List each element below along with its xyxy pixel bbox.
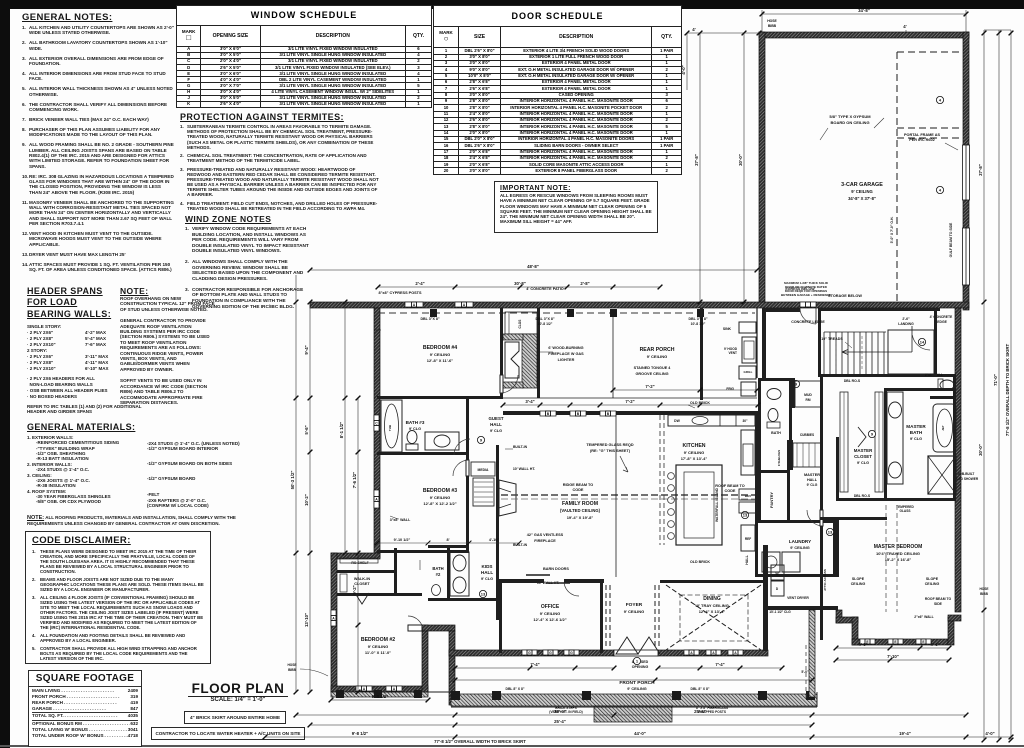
svg-text:9' CEILING: 9' CEILING (851, 189, 872, 194)
laundry hall wall (755, 523, 758, 577)
svg-text:CODE: CODE (725, 489, 736, 493)
garage left wall (759, 32, 765, 304)
svg-text:VENT DRYER: VENT DRYER (787, 596, 809, 600)
svg-text:8"x8" CYPRESS POSTS: 8"x8" CYPRESS POSTS (378, 291, 422, 295)
master top corridor wall (820, 517, 887, 520)
svg-text:3'-4": 3'-4" (525, 399, 534, 404)
svg-text:7'-4": 7'-4" (715, 662, 724, 667)
header spans heading (27, 286, 147, 320)
bath2 walls (428, 545, 469, 548)
outdoor kitchen wall (700, 308, 703, 400)
svg-text:37'-8": 37'-8" (978, 164, 983, 176)
bedroom4 door (500, 375, 503, 393)
svg-text:GLASS: GLASS (900, 509, 911, 513)
svg-text:GRILL: GRILL (744, 370, 753, 374)
dining tray X (666, 585, 761, 650)
svg-text:14: 14 (920, 340, 925, 345)
svg-text:77'-8 1/2" OVERALL WIDTH TO BR: 77'-8 1/2" OVERALL WIDTH TO BRICK SKIRT (434, 739, 526, 744)
svg-text:MEDIA: MEDIA (478, 468, 489, 472)
svg-text:CONCRETE LEDGE: CONCRETE LEDGE (791, 320, 825, 324)
contractor note (151, 727, 305, 740)
svg-text:2'-8": 2'-8" (580, 281, 589, 286)
sheet border top (0, 0, 1024, 9)
powder bath walls (758, 378, 761, 440)
fireplace hatched chase (522, 334, 537, 388)
svg-text:44'-0": 44'-0" (634, 731, 646, 736)
porch brick steps hatch (594, 706, 672, 722)
svg-text:9' CEILING: 9' CEILING (540, 611, 561, 616)
svg-text:9' CEILING: 9' CEILING (368, 644, 389, 649)
house rear wall (310, 302, 969, 308)
svg-text:11'-0" X 11'-0": 11'-0" X 11'-0" (365, 650, 391, 655)
vanity sinks (887, 392, 903, 484)
svg-text:BATH: BATH (432, 566, 443, 571)
square footage box (28, 670, 142, 747)
svg-text:7'-4": 7'-4" (530, 662, 539, 667)
svg-text:4'-0": 4'-0" (985, 731, 994, 736)
front porch slab hatch (451, 694, 817, 706)
svg-text:7'-2": 7'-2" (625, 399, 634, 404)
svg-text:LANDING: LANDING (898, 322, 914, 326)
svg-text:9'-8 1/2": 9'-8 1/2" (372, 694, 388, 699)
svg-text:7'-10": 7'-10" (887, 654, 899, 659)
important note box (494, 181, 658, 233)
door schedule table (433, 5, 682, 175)
svg-text:8'-1 1/2": 8'-1 1/2" (339, 422, 344, 438)
svg-text:LAUNDRY: LAUNDRY (789, 539, 811, 544)
shower (928, 456, 956, 494)
svg-text:BATH: BATH (771, 431, 781, 435)
rear porch posts (430, 309, 437, 317)
svg-text:DBL 3"X 8": DBL 3"X 8" (535, 317, 554, 321)
master bath bottom wall (884, 498, 956, 501)
svg-text:FIREPLACE W GAS: FIREPLACE W GAS (548, 352, 584, 356)
svg-text:77'-8 1/2" OVERALL DEPTH TO BR: 77'-8 1/2" OVERALL DEPTH TO BRICK SKIRT (1005, 344, 1010, 437)
master bottom step east (948, 617, 954, 645)
svg-text:DW: DW (674, 419, 680, 423)
dimension labels (290, 8, 1010, 744)
garage door openings in right wall (963, 145, 970, 200)
svg-text:BEDROOM #2: BEDROOM #2 (361, 637, 395, 643)
svg-text:9' CEILING: 9' CEILING (627, 687, 647, 691)
svg-text:9 SHELVES: 9 SHELVES (777, 450, 781, 466)
svg-text:15'-2" X 16'-8": 15'-2" X 16'-8" (885, 557, 912, 562)
laundry (758, 520, 836, 523)
stairwell west wall (818, 308, 821, 377)
office walls (499, 583, 502, 653)
dimension ticks (263, 12, 1014, 743)
kitchen left dashed cased opening (659, 415, 661, 545)
termites text block (180, 112, 380, 214)
svg-text:TUB: TUB (388, 424, 392, 431)
garage door dashed tracks (897, 52, 961, 302)
svg-text:EGRESS BELOW: EGRESS BELOW (785, 287, 815, 291)
svg-text:GULF BEAM TO SIDE: GULF BEAM TO SIDE (949, 222, 953, 257)
front wall east (658, 650, 768, 656)
stair arrow (842, 350, 912, 355)
kitchen island (676, 465, 722, 545)
svg-text:TILED SHOWER: TILED SHOWER (954, 477, 979, 481)
dining (660, 580, 766, 583)
svg-text:13: 13 (828, 530, 833, 535)
bedroom2 posts (336, 690, 344, 698)
svg-text:DBL 8" X 8": DBL 8" X 8" (506, 687, 525, 691)
bath2 toilet (432, 585, 441, 596)
svg-text:BIBB: BIBB (980, 592, 988, 596)
svg-text:WATERFALL ISLAND: WATERFALL ISLAND (715, 487, 719, 522)
svg-text:13'-10": 13'-10" (304, 613, 309, 627)
sheet border bottom (0, 745, 1024, 747)
porch post (451, 691, 460, 700)
svg-text:7'-2": 7'-2" (645, 384, 654, 389)
svg-text:9' CEILING: 9' CEILING (647, 354, 668, 359)
svg-text:DBL 3"X 8": DBL 3"X 8" (688, 317, 707, 321)
svg-text:9' CLG: 9' CLG (481, 577, 493, 581)
svg-text:HOSE: HOSE (767, 19, 777, 23)
svg-text:3"x8" WALL: 3"x8" WALL (390, 518, 411, 522)
toilet room (930, 396, 956, 399)
bedroom4 right wall (500, 308, 503, 398)
svg-text:34'-8" X 37'-8": 34'-8" X 37'-8" (848, 196, 876, 201)
svg-text:8': 8' (446, 538, 449, 542)
stair dashed rails (835, 336, 837, 370)
svg-text:9'-8 1/2": 9'-8 1/2" (352, 731, 368, 736)
svg-text:19'-4": 19'-4" (899, 731, 911, 736)
svg-text:4'-6": 4'-6" (930, 642, 939, 647)
outdoor kitchen fixtures (739, 322, 756, 333)
svg-text:STORAGE BELOW: STORAGE BELOW (828, 294, 862, 298)
master bath (884, 388, 956, 391)
svg-text:2'-4": 2'-4" (415, 281, 424, 286)
svg-text:12'-8" X 12'-2 1/2": 12'-8" X 12'-2 1/2" (423, 501, 456, 506)
mud bench (792, 378, 795, 408)
plan notes (378, 287, 809, 714)
concrete ledge door arc (912, 335, 930, 350)
svg-text:BUILT-IN: BUILT-IN (513, 543, 528, 547)
svg-text:HALL: HALL (481, 570, 493, 575)
svg-text:4' CONCRETE PATIO: 4' CONCRETE PATIO (526, 287, 564, 291)
svg-text:DBL RO-S: DBL RO-S (854, 494, 871, 498)
master west wall lower (820, 526, 823, 640)
svg-text:RIDGE BEAM TO: RIDGE BEAM TO (563, 483, 594, 487)
svg-text:G: G (528, 651, 531, 655)
svg-text:9' CEILING: 9' CEILING (684, 450, 705, 455)
svg-text:MASTER: MASTER (804, 473, 820, 477)
svg-text:VENT: VENT (728, 351, 737, 355)
svg-text:71'-0": 71'-0" (993, 374, 998, 386)
stairs treads (823, 332, 825, 374)
svg-text:PER IRC R602: PER IRC R602 (909, 138, 935, 142)
porch post (806, 691, 815, 700)
guest hall walls (466, 396, 469, 455)
svg-text:D: D (776, 587, 779, 591)
svg-text:WALK-IN: WALK-IN (354, 577, 370, 581)
svg-text:4'-10": 4'-10" (489, 538, 500, 542)
porch post (582, 691, 591, 700)
svg-text:5'-6": 5'-6" (304, 425, 309, 434)
svg-text:LEDGE: LEDGE (935, 320, 947, 324)
stair top wall (818, 308, 940, 311)
office door (564, 584, 579, 596)
svg-text:4' CONCRETE: 4' CONCRETE (930, 315, 953, 319)
bedroom2 bottom wall (331, 686, 428, 692)
garage top wall (759, 32, 969, 38)
svg-text:(VAULTED CEILING): (VAULTED CEILING) (560, 508, 601, 513)
kitchen range wall (741, 430, 755, 475)
media closet (471, 462, 495, 476)
svg-text:9' CLG: 9' CLG (490, 429, 502, 433)
general materials (27, 422, 245, 527)
brick skirt note (184, 711, 286, 724)
svg-text:GUEST: GUEST (488, 416, 503, 421)
svg-text:LIGHTER: LIGHTER (558, 358, 575, 362)
foyer dashed side walls (605, 585, 607, 648)
front wall west (449, 650, 614, 656)
svg-text:5/8" TYPE X GYPSUM: 5/8" TYPE X GYPSUM (829, 114, 871, 119)
svg-text:3'-0" X 7'-0" O.H.: 3'-0" X 7'-0" O.H. (890, 217, 894, 244)
svg-text:(RE: "G" THIS SHEET): (RE: "G" THIS SHEET) (590, 449, 631, 453)
front door (614, 650, 658, 656)
svg-text:BIBB: BIBB (288, 668, 296, 672)
east house wall (955, 308, 961, 612)
note column (120, 286, 215, 405)
kitchen right wall (755, 411, 758, 523)
svg-text:48'-8": 48'-8" (527, 264, 539, 269)
svg-text:FRIG: FRIG (726, 387, 734, 391)
svg-text:JET: JET (941, 425, 945, 431)
svg-text:4'-6": 4'-6" (858, 642, 867, 647)
garden tub (933, 404, 956, 452)
porch column wall (449, 631, 455, 705)
family fireplace (499, 480, 516, 516)
svg-text:9'-10 1/2": 9'-10 1/2" (394, 538, 411, 542)
svg-text:34'-8": 34'-8" (858, 8, 870, 13)
window schedule table (176, 5, 432, 108)
svg-text:MASTER BEDROOM: MASTER BEDROOM (874, 544, 923, 550)
svg-text:DBL 3"X 8": DBL 3"X 8" (420, 317, 439, 321)
svg-text:REF: REF (745, 537, 751, 541)
fireplace firebox (505, 342, 519, 378)
garage right wall (963, 32, 969, 310)
svg-text:G: G (549, 651, 552, 655)
svg-text:9' CEILING: 9' CEILING (430, 495, 451, 500)
svg-text:PANTRY: PANTRY (769, 492, 774, 508)
svg-text:9'-4": 9'-4" (304, 345, 309, 354)
svg-text:ATTIC ACCESS: ATTIC ACCESS (823, 569, 827, 591)
svg-text:4'-0": 4'-0" (681, 65, 686, 74)
bath3 fixtures tub (381, 400, 402, 452)
pantry walls (758, 440, 761, 523)
svg-text:STAINED TONGUE 4: STAINED TONGUE 4 (634, 366, 672, 370)
svg-text:4': 4' (692, 27, 695, 32)
master closet (836, 437, 839, 501)
bedroom2 right lower wall (422, 625, 428, 692)
svg-text:9' CLG: 9' CLG (409, 427, 421, 431)
svg-text:3-CAR GARAGE: 3-CAR GARAGE (841, 182, 883, 188)
svg-text:9' CLG: 9' CLG (910, 437, 922, 441)
general notes text block (22, 12, 174, 277)
master bottom wall (852, 639, 948, 645)
svg-text:SIDE: SIDE (934, 602, 943, 606)
porch dashed columns (805, 645, 807, 700)
garage door to house (800, 302, 816, 307)
svg-text:10'-2": 10'-2" (304, 494, 309, 506)
svg-text:FIREPLACE: FIREPLACE (534, 539, 556, 543)
dining east wall (763, 545, 768, 651)
kitchen rear counter (668, 415, 755, 426)
bedroom2 porch foot hatch (331, 692, 428, 697)
svg-text:BEV: BEV (745, 494, 751, 498)
svg-text:30'-8": 30'-8" (514, 281, 526, 286)
walkin closet (337, 570, 397, 573)
svg-text:9' CEILING: 9' CEILING (790, 546, 810, 550)
svg-text:13: 13 (481, 592, 486, 597)
svg-text:SINK: SINK (723, 327, 732, 331)
bev center (739, 489, 757, 500)
svg-text:KIDS: KIDS (482, 564, 493, 569)
svg-text:MASTER: MASTER (906, 424, 926, 429)
svg-text:RM: RM (806, 398, 811, 402)
dimension line network (265, 10, 1011, 740)
family south / office top wall (499, 579, 544, 583)
svg-text:10'4"/TRAYED CEILING: 10'4"/TRAYED CEILING (876, 551, 920, 556)
svg-text:CODE: CODE (573, 488, 584, 492)
porch post (758, 691, 767, 700)
code disclaimer box (25, 531, 211, 664)
svg-text:ROOF BEAM TO: ROOF BEAM TO (925, 597, 952, 601)
svg-text:BUILT-IN: BUILT-IN (513, 445, 528, 449)
svg-text:2"x6" WALL: 2"x6" WALL (914, 615, 933, 619)
mud hall cubbies (790, 440, 793, 470)
svg-text:JOB-BUILT: JOB-BUILT (958, 472, 975, 476)
house left exterior wall (374, 308, 380, 558)
bedroom4 closet shelves (505, 312, 537, 334)
svg-text:30'-0": 30'-0" (738, 154, 743, 166)
svg-text:9' CEILING: 9' CEILING (430, 352, 451, 357)
svg-text:4': 4' (903, 24, 906, 29)
bath2 dim row (377, 542, 519, 544)
svg-text:HOSE: HOSE (287, 663, 296, 667)
bath3 bottom wall (377, 452, 469, 455)
svg-text:OFFICE: OFFICE (541, 604, 560, 610)
svg-text:7'-6 1/2": 7'-6 1/2" (352, 472, 357, 488)
bath3 toilet (407, 431, 417, 444)
svg-text:10" TREADS: 10" TREADS (821, 337, 843, 341)
svg-text:W: W (775, 572, 778, 576)
svg-text:OPENING: OPENING (632, 665, 649, 669)
svg-text:KITCHEN: KITCHEN (682, 443, 705, 449)
svg-text:MASTER: MASTER (854, 448, 873, 453)
closet door pent (355, 593, 369, 604)
porch post (672, 691, 681, 700)
bedroom4 closet wall (537, 308, 540, 398)
svg-text:DBL 8" X 8": DBL 8" X 8" (691, 687, 710, 691)
bedroom3 bottom wall (377, 550, 469, 553)
svg-text:WRAPPED POSTS: WRAPPED POSTS (698, 710, 726, 714)
svg-text:BATH #3: BATH #3 (406, 420, 425, 425)
family ridge dashed (501, 494, 756, 496)
svg-text:DINING: DINING (703, 596, 721, 602)
svg-text:19'-4" X 19'-8": 19'-4" X 19'-8" (567, 515, 594, 520)
svg-text:W' TRAY CEILING: W' TRAY CEILING (695, 603, 729, 608)
svg-text:CEILING: CEILING (925, 582, 940, 586)
svg-text:5'-0": 5'-0" (801, 670, 809, 674)
svg-text:9' CLG: 9' CLG (857, 461, 869, 465)
master bath east wall joins (953, 374, 956, 500)
svg-text:9' CEILING: 9' CEILING (624, 609, 645, 614)
svg-text:37'-8": 37'-8" (694, 154, 699, 166)
svg-text:10' WALL HT.: 10' WALL HT. (513, 467, 536, 471)
svg-text:BARN DOORS: BARN DOORS (543, 567, 569, 571)
rear porch left post line (612, 313, 614, 398)
svg-text:GROOVE CEILING: GROOVE CEILING (635, 372, 668, 376)
wind zone notes (185, 214, 310, 315)
svg-text:SLOPE: SLOPE (926, 577, 939, 581)
svg-text:HALL: HALL (745, 554, 749, 564)
svg-text:FRONT PORCH: FRONT PORCH (619, 680, 655, 686)
svg-text:SLOPE: SLOPE (852, 577, 865, 581)
svg-text:BEDROOM #4: BEDROOM #4 (423, 345, 457, 351)
porch floor lines (378, 691, 451, 693)
floor plan title (188, 681, 288, 703)
master west wall full (820, 374, 823, 510)
bath2 vanity sinks (450, 552, 469, 596)
bath3 vanity (425, 432, 459, 450)
family rear wall with windows (503, 411, 758, 415)
svg-text:G: G (570, 651, 573, 655)
svg-text:OLD BRICK: OLD BRICK (690, 560, 710, 564)
svg-text:CUBBIES: CUBBIES (800, 433, 814, 437)
svg-text:ROOF BEAM TO: ROOF BEAM TO (715, 484, 745, 488)
outdoor kitchen east line (756, 308, 758, 378)
hall step wall (422, 625, 455, 631)
svg-text:15'-1 1/2" CLG: 15'-1 1/2" CLG (769, 610, 791, 614)
svg-text:HALL: HALL (807, 478, 818, 482)
side porch brick pier (809, 610, 815, 697)
sheet border left (0, 0, 10, 748)
svg-text:DBL RO-S: DBL RO-S (844, 379, 861, 383)
bedroom3 door arc (466, 460, 469, 476)
master tray ceiling dashes (885, 505, 887, 612)
family west wall (496, 445, 499, 620)
svg-text:PORTAL FRAME AS: PORTAL FRAME AS (904, 133, 940, 137)
svg-text:TEMPERED GLASS REQD: TEMPERED GLASS REQD (586, 443, 634, 447)
svg-text:HALL: HALL (490, 422, 502, 427)
closet door pent (858, 427, 866, 447)
rear porch slab edge (378, 397, 757, 399)
svg-text:42" GAS VENTLESS: 42" GAS VENTLESS (527, 533, 564, 537)
master hall west wall (820, 377, 823, 437)
bedroom3 right wall (466, 455, 469, 553)
svg-text:9'-2": 9'-2" (352, 585, 357, 594)
bedroom4 windows on rear wall (405, 302, 423, 307)
svg-text:BETWEEN GARAGE + RESIDENCE: BETWEEN GARAGE + RESIDENCE (781, 293, 831, 297)
svg-text:BEDROOM #3: BEDROOM #3 (423, 488, 457, 494)
bedroom2 step top wall (331, 553, 380, 559)
svg-text:10'-8 1/2": 10'-8 1/2" (538, 322, 553, 326)
svg-text:30'-0": 30'-0" (978, 444, 983, 456)
svg-text:BATH: BATH (910, 430, 923, 435)
master entry door (820, 510, 823, 526)
svg-text:BIBB: BIBB (768, 24, 777, 28)
stair hall bottom wall (820, 374, 955, 377)
svg-text:FAMILY ROOM: FAMILY ROOM (562, 501, 598, 507)
svg-text:#2: #2 (436, 572, 441, 577)
svg-text:REAR PORCH: REAR PORCH (640, 347, 675, 353)
svg-text:12'-8" X 11'-6": 12'-8" X 11'-6" (427, 358, 453, 363)
svg-text:25'-4": 25'-4" (554, 719, 566, 724)
landing box (888, 330, 934, 374)
